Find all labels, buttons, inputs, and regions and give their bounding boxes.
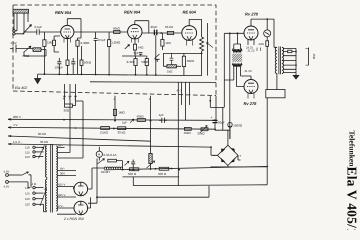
secondary tap heater1 bbox=[57, 170, 76, 172]
wire: field coil drop left bbox=[132, 177, 134, 186]
svg-text:40kΩ: 40kΩ bbox=[184, 131, 192, 135]
wire: bridge DC out bbox=[211, 166, 268, 168]
svg-text:21 26: 21 26 bbox=[245, 69, 252, 73]
wire: heater dropper link bbox=[73, 101, 76, 106]
resistor right of tube2 area bbox=[182, 53, 185, 75]
wire: U bracket pin jump bbox=[210, 101, 224, 108]
junction dot cathode bbox=[201, 53, 203, 55]
resistor 27kΩ bbox=[134, 56, 137, 75]
junction dots lower bbox=[63, 119, 216, 198]
primary tap circle 0 bbox=[33, 186, 44, 188]
border: dashed preamp chassis box bbox=[13, 5, 216, 96]
secondary tap anode2 bbox=[57, 207, 74, 209]
wire: tube2 plate to coupling line bbox=[142, 32, 182, 34]
primary tap circle 125b bbox=[33, 198, 44, 200]
svg-text:0,5µF: 0,5µF bbox=[98, 38, 106, 42]
wire: primary winding ends bbox=[44, 146, 47, 212]
svg-text:125: 125 bbox=[25, 191, 30, 195]
svg-text:4,5V: 4,5V bbox=[4, 170, 10, 174]
battery 4,5V bbox=[10, 45, 21, 53]
output ground bbox=[293, 72, 299, 79]
wire: switch chain bbox=[116, 161, 122, 168]
heater wire vertical c bbox=[76, 84, 84, 158]
wire: tube1 grid stub bbox=[54, 36, 60, 52]
svg-text:30µF: 30µF bbox=[218, 120, 225, 124]
tube REN 904 second triode bbox=[128, 21, 149, 43]
svg-text:4 V~: 4 V~ bbox=[58, 204, 64, 208]
electrolytic stem bbox=[214, 120, 216, 131]
wire: rheostat top bbox=[150, 164, 152, 170]
capacitor 0,1µF coupling bbox=[24, 29, 39, 34]
wire: cathode branch vertical bbox=[163, 53, 167, 66]
output terminal bracket bbox=[308, 48, 310, 66]
secondary tap heater2 bbox=[57, 175, 76, 177]
wire: RGN1 cathode right bbox=[88, 168, 105, 189]
pot arrow near field box bbox=[125, 161, 130, 165]
svg-text:Rv 278: Rv 278 bbox=[245, 11, 259, 16]
svg-text:200 V: 200 V bbox=[13, 115, 21, 119]
svg-text:54Ω: 54Ω bbox=[138, 45, 144, 49]
wire: pot branches bbox=[24, 13, 28, 34]
svg-text:30 kΩ: 30 kΩ bbox=[40, 140, 49, 144]
svg-text:4 V: 4 V bbox=[13, 123, 18, 127]
svg-text:1,5 V~: 1,5 V~ bbox=[13, 140, 22, 144]
electrolytic 5µF arrow bbox=[155, 54, 160, 62]
svg-text:2,5kΩ: 2,5kΩ bbox=[100, 130, 109, 134]
arrow L3 left end bbox=[8, 135, 11, 137]
svg-text:5µF: 5µF bbox=[134, 51, 139, 55]
wire: Rv278 output grid bbox=[236, 67, 244, 87]
wire: y197 right riser bbox=[208, 186, 210, 197]
wire: tap junction dots bbox=[295, 51, 297, 66]
wire: L1 supply bus bbox=[8, 119, 215, 120]
wire: meter leads bbox=[98, 147, 100, 161]
svg-text:500 Ω: 500 Ω bbox=[158, 172, 167, 176]
svg-text:1,2MΩ: 1,2MΩ bbox=[111, 41, 121, 45]
svg-text:425 V: 425 V bbox=[58, 193, 65, 197]
resistor on tap bbox=[288, 50, 292, 53]
wire: switch to selector bbox=[29, 175, 32, 188]
wire: L4 bus bbox=[8, 144, 218, 155]
filter choke bbox=[104, 167, 122, 170]
svg-text:220: 220 bbox=[25, 203, 30, 207]
volume potentiometer body (hatched) bbox=[13, 9, 29, 13]
bridge rectifier bbox=[218, 145, 239, 165]
wire: cathode top link bbox=[163, 52, 201, 54]
resistor 50kΩ lower bbox=[145, 56, 148, 75]
svg-text:4V~: 4V~ bbox=[58, 143, 63, 147]
resistor bias tube2 bbox=[133, 39, 136, 56]
resistor 3MΩ bbox=[53, 36, 56, 52]
capacitor cathode small bbox=[170, 53, 174, 64]
primary tap circle 125 bbox=[33, 151, 44, 153]
primary tap circle 110b bbox=[33, 192, 44, 194]
output transformer primary winding bbox=[275, 47, 277, 73]
arrow L2 left end bbox=[8, 127, 11, 129]
wire: L3 bus bbox=[8, 136, 151, 141]
junction dot grid line bbox=[237, 32, 239, 34]
heater pin ticks bbox=[63, 95, 77, 97]
resistor screen tube2 vertical bbox=[161, 33, 164, 50]
selector arrow upper bbox=[39, 147, 44, 159]
capacitor 1µF on L1 bbox=[159, 118, 167, 123]
wire: bias network bbox=[21, 49, 46, 57]
svg-text:50kΩ: 50kΩ bbox=[84, 61, 92, 65]
resistor zigzag cathode RE604 bbox=[200, 37, 204, 51]
svg-text:50kΩ: 50kΩ bbox=[187, 59, 195, 63]
selector arrow lower bbox=[40, 189, 47, 207]
heater wire vertical b bbox=[69, 84, 71, 153]
wire: tube2 cathode bus bbox=[122, 55, 146, 57]
svg-text:20µF: 20µF bbox=[151, 25, 158, 29]
resistor hatched vertical x148 bbox=[149, 154, 152, 164]
svg-text:40kΩ: 40kΩ bbox=[137, 114, 145, 118]
pot arrow tube2 grid bbox=[125, 45, 130, 50]
diode arrow on L1 bbox=[130, 119, 134, 123]
svg-text:20 kΩ: 20 kΩ bbox=[38, 132, 47, 136]
wire: secondary taps bbox=[283, 48, 296, 72]
svg-text:50kΩ: 50kΩ bbox=[141, 60, 149, 64]
pin stub x115 bbox=[114, 96, 116, 121]
capacitor 5µF bbox=[139, 52, 142, 55]
wire: rheostat vertical x207.4 bbox=[206, 23, 208, 76]
meter circle bbox=[96, 151, 102, 157]
arrow L1 left end bbox=[8, 118, 11, 120]
svg-text:4 - 2: 4 - 2 bbox=[177, 88, 183, 92]
ground symbol bbox=[35, 74, 41, 83]
wire: jack to pot bbox=[14, 13, 24, 34]
wire: grid line to tube1 bbox=[39, 31, 61, 33]
svg-text:1500Ω: 1500Ω bbox=[233, 123, 243, 127]
svg-text:500 Ω: 500 Ω bbox=[128, 172, 137, 176]
junction dot U bracket bbox=[209, 100, 211, 102]
svg-text:1kΩ: 1kΩ bbox=[165, 41, 171, 45]
svg-text:2x10H: 2x10H bbox=[101, 170, 110, 174]
pin stub x150.5 bbox=[150, 96, 152, 154]
mains transformer primary winding upper bbox=[45, 146, 46, 177]
wire: bus y197 bbox=[97, 196, 209, 198]
resistor 50kΩ coupling bbox=[167, 31, 173, 34]
interstage transformer core (hatched) bbox=[232, 54, 242, 62]
resistor 30kΩ on L2 bbox=[118, 127, 126, 130]
interstage transformer top winding bbox=[232, 49, 242, 52]
resistor 50kΩ on grid line bbox=[114, 31, 120, 34]
resistor 1MΩ grid leak bbox=[43, 32, 46, 74]
wire: cap return vertical bbox=[155, 35, 157, 75]
interstage transformer bottom winding bbox=[232, 64, 242, 67]
wire: interstage bottom connections bbox=[224, 67, 251, 80]
electrolytic can top right bbox=[264, 19, 271, 41]
svg-text:0,1µF: 0,1µF bbox=[35, 25, 43, 29]
svg-text:0,3A 0,1A: 0,3A 0,1A bbox=[104, 153, 117, 157]
resistor cathode tube1 bbox=[66, 39, 69, 75]
mains transformer core bbox=[51, 144, 53, 213]
fuse resistor right top bbox=[266, 41, 269, 47]
field coil box bbox=[266, 90, 285, 98]
wire: output tap to bracket ticks bbox=[306, 48, 309, 65]
svg-text:24Ω: 24Ω bbox=[259, 42, 264, 46]
wire: OT primary bottom feed bbox=[276, 74, 278, 90]
resistor hatched bias bbox=[33, 48, 41, 52]
svg-text:Ela V 405/1: Ela V 405/1 bbox=[345, 167, 360, 231]
svg-text:2 x RGN 354: 2 x RGN 354 bbox=[63, 217, 84, 221]
wire: secondary tap stubs bbox=[257, 48, 261, 52]
capacitor near field box bbox=[131, 160, 135, 170]
svg-text:150: 150 bbox=[25, 155, 30, 159]
svg-text:4 Ω: 4 Ω bbox=[32, 182, 36, 186]
secondary tap 4V top bbox=[57, 148, 70, 153]
svg-text:Ela 402: Ela 402 bbox=[15, 86, 27, 90]
secondary tap anode1 bbox=[57, 187, 74, 190]
svg-text:21 22: 21 22 bbox=[248, 49, 255, 53]
resistor 40kΩ on L2 right bbox=[184, 128, 191, 131]
wire: y197 left riser bbox=[88, 159, 97, 204]
svg-text:1MΩ: 1MΩ bbox=[118, 111, 125, 115]
svg-text:30 kΩ: 30 kΩ bbox=[118, 131, 127, 135]
svg-text:27kΩ: 27kΩ bbox=[127, 60, 135, 64]
resistor cylinder 1500Ω bbox=[228, 122, 232, 130]
tube REN 904 first triode bbox=[61, 25, 74, 42]
capacitor 20µF coupling bbox=[154, 30, 156, 36]
wire: hatched resistor leads bbox=[176, 65, 181, 67]
junction dots ground bus bbox=[44, 73, 157, 76]
wire: filter cap chain down bbox=[215, 107, 230, 145]
primary tap circle 150b bbox=[33, 203, 44, 205]
pin stub x209.8 bbox=[209, 96, 211, 101]
svg-text:+: + bbox=[211, 116, 213, 120]
svg-text:−: − bbox=[213, 154, 215, 158]
svg-text:A: A bbox=[98, 153, 101, 157]
input terminal jack bbox=[13, 30, 15, 32]
svg-text:4,5V: 4,5V bbox=[4, 184, 10, 188]
wire: long B minus vertical bbox=[266, 46, 268, 185]
pin stub x216 bbox=[215, 96, 217, 122]
svg-text:RE 604: RE 604 bbox=[183, 10, 197, 15]
capacitor 0,5µF coupling bbox=[94, 32, 98, 74]
wire: Rv278 pins down bbox=[248, 40, 254, 46]
resistor 500Ω a bbox=[130, 168, 139, 171]
resistor heater dropper bbox=[65, 104, 73, 107]
input terminal jack 2 bbox=[13, 33, 15, 35]
svg-text:Telefunken: Telefunken bbox=[348, 131, 357, 168]
svg-text:1MΩ: 1MΩ bbox=[47, 41, 54, 45]
svg-text:100µF: 100µF bbox=[55, 66, 64, 70]
pot wiper arrow lower bbox=[24, 46, 32, 53]
svg-text:0,3MΩ: 0,3MΩ bbox=[81, 41, 91, 45]
output transformer secondary winding bbox=[282, 47, 284, 73]
wire: bridge right vertex stub bbox=[238, 155, 241, 160]
svg-text:4,5V: 4,5V bbox=[11, 41, 17, 45]
ground bus second bbox=[90, 81, 216, 84]
rectifier tube RGN 1 bbox=[74, 182, 88, 196]
wire: screen feed vertical x230 bbox=[229, 33, 231, 139]
wire: filament bus lower bbox=[123, 176, 180, 178]
mains transformer primary winding lower bbox=[45, 180, 46, 211]
rectifier tube RGN 2 bbox=[74, 201, 88, 215]
svg-text:4V~: 4V~ bbox=[60, 166, 65, 170]
svg-text:1µF: 1µF bbox=[122, 120, 127, 124]
tube RE 604 output triode bbox=[182, 19, 202, 45]
svg-text:50kΩ: 50kΩ bbox=[113, 27, 121, 31]
pot wiper arrow bbox=[23, 25, 32, 35]
wire: plate coupling tube1-tube2 bbox=[74, 31, 127, 33]
primary tap circle 110 bbox=[33, 146, 44, 148]
svg-text:50 kΩ: 50 kΩ bbox=[165, 25, 174, 29]
svg-text:REN 904: REN 904 bbox=[55, 10, 72, 15]
svg-text:20kΩ: 20kΩ bbox=[198, 131, 206, 135]
resistor 20kΩ pot on L2 bbox=[201, 128, 208, 131]
resistor screen divider bbox=[80, 46, 83, 74]
svg-text:110: 110 bbox=[25, 186, 30, 190]
resistor 1,2MΩ bbox=[108, 32, 111, 74]
resistor 2,5kΩ on L2 bbox=[101, 127, 110, 130]
wire: grid line to Rv278 bbox=[225, 32, 245, 34]
svg-text:1µF: 1µF bbox=[159, 113, 164, 117]
pin stubs group below RE604 bbox=[178, 82, 189, 186]
resistor 1MΩ on x115 stub bbox=[113, 109, 116, 115]
svg-text:1kΩ: 1kΩ bbox=[167, 69, 173, 73]
primary tap circle 150 bbox=[33, 155, 44, 157]
resistor 500Ω b bbox=[159, 167, 169, 170]
rheostat arrow bbox=[147, 161, 155, 168]
resistor mains small bbox=[108, 159, 117, 162]
svg-text:30Ω: 30Ω bbox=[64, 108, 70, 112]
mains input terminal minus bbox=[6, 181, 30, 188]
svg-text:425 V: 425 V bbox=[58, 182, 65, 186]
output transformer core bbox=[279, 47, 281, 75]
junction dot coupling bbox=[160, 32, 162, 34]
svg-text:110: 110 bbox=[25, 146, 30, 150]
wire: Rv278 output cathode down bbox=[248, 93, 254, 99]
wire: RGN2 cathode right bbox=[88, 197, 91, 208]
switch at terminals bbox=[21, 172, 29, 176]
heater wire vertical a bbox=[64, 84, 66, 104]
svg-text:470Ω: 470Ω bbox=[22, 54, 30, 58]
wire: B+ feed vertical x222.8 bbox=[223, 33, 225, 101]
svg-text:+: + bbox=[239, 154, 241, 158]
svg-text:30V: 30V bbox=[60, 171, 65, 175]
mains input terminal plus bbox=[6, 174, 21, 177]
tube Rv 278 driver bbox=[244, 26, 258, 40]
secondary tap bottom bbox=[57, 213, 76, 215]
wire: cathode resistor to ground bus bbox=[201, 51, 203, 76]
tube Rv 278 output bbox=[244, 80, 258, 94]
svg-text:REN 904: REN 904 bbox=[124, 10, 141, 15]
arrow L4 left end bbox=[8, 143, 11, 145]
svg-text:125: 125 bbox=[25, 150, 30, 154]
mains transformer secondary winding bbox=[56, 146, 57, 211]
svg-text:150: 150 bbox=[25, 197, 30, 201]
wire: T2 primary stubs bbox=[234, 33, 241, 49]
resistor 40kΩ on L1 bbox=[137, 119, 145, 122]
wire: main filament bus bbox=[104, 166, 268, 170]
electrolytic 100µF cathode bbox=[57, 58, 61, 74]
ground bus bbox=[38, 74, 202, 76]
electrolytic 30µF filter bbox=[213, 120, 218, 122]
svg-text:Rv 278: Rv 278 bbox=[244, 101, 258, 106]
pot arrow RE604 rheostat bbox=[207, 43, 213, 48]
wire: bottom bus to field box bbox=[133, 184, 267, 187]
wire: L2 bus bbox=[8, 127, 216, 129]
switch mains bbox=[98, 159, 105, 164]
junction dot L2 bbox=[113, 128, 115, 130]
wire: tube1 plate bracket bbox=[67, 19, 81, 34]
resistor 0,3MΩ plate load bbox=[76, 33, 81, 74]
junction dot plate rail bbox=[266, 18, 268, 20]
wire: Rv278 plate rail bbox=[251, 19, 277, 47]
resistor 1kΩ hatched horizontal bbox=[167, 65, 177, 68]
secondary tap heater0 bbox=[57, 157, 83, 159]
pot arrow on L2 bbox=[200, 125, 207, 132]
svg-text:15Ω: 15Ω bbox=[312, 54, 316, 60]
secondary tap center bbox=[57, 196, 76, 198]
wire: screen feed join bbox=[229, 130, 231, 139]
capacitor cathode bypass bbox=[71, 58, 75, 74]
